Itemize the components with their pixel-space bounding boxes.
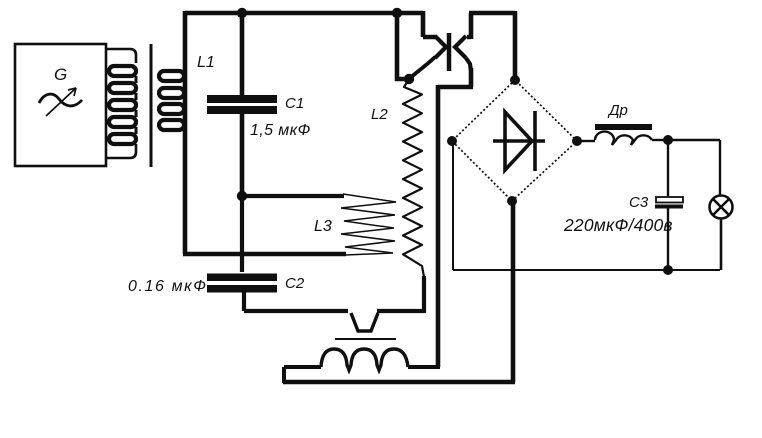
- capacitor C2: [207, 274, 277, 312]
- label L3: [314, 218, 332, 235]
- capacitor C3: [655, 140, 683, 270]
- generator G box: [15, 44, 106, 166]
- spark gap FV electrodes: [410, 33, 471, 78]
- node choke output: [663, 135, 673, 145]
- transformer T1 core: [150, 44, 153, 167]
- transformer T1 secondary winding (L1 side): [159, 71, 184, 130]
- svg-text:Др: Др: [607, 102, 628, 119]
- wire bottom rail up to T2 secondary: [284, 367, 321, 383]
- wire node to lamp top: [668, 140, 720, 196]
- svg-text:С3: С3: [629, 194, 649, 211]
- svg-text:C1: C1: [285, 95, 304, 112]
- coil L3: [341, 194, 396, 255]
- generator sine-arrow symbol: [39, 88, 82, 116]
- wire bridge bottom to bottom rail: [511, 201, 516, 382]
- node C3 bottom: [663, 265, 673, 275]
- label C3: [629, 194, 649, 211]
- coil L2 zigzag: [403, 79, 424, 277]
- bridge rectifier diamond: [452, 80, 577, 201]
- wire top rail to spark-gap left: [397, 11, 436, 37]
- node bridge right: [572, 136, 582, 146]
- wire bottom rail: [283, 380, 515, 385]
- transformer T2 core: [335, 338, 396, 340]
- label C1 value: [250, 122, 311, 139]
- transformer T1 primary winding: [106, 49, 136, 158]
- node bridge left: [447, 136, 457, 146]
- svg-text:0.16 мкФ: 0.16 мкФ: [128, 278, 208, 295]
- lamp HL1: [710, 196, 733, 271]
- svg-text:L1: L1: [197, 54, 215, 71]
- label C2: [285, 275, 305, 292]
- wire bottom thin rail: [453, 269, 720, 271]
- svg-text:G: G: [54, 65, 67, 84]
- choke Dr winding: [595, 132, 652, 145]
- wire lower-left horizontal: [183, 252, 346, 257]
- wire C2 bottom to T2 primary: [244, 309, 348, 313]
- wire top rail: [185, 11, 397, 16]
- bridge diode symbol: [493, 111, 545, 171]
- capacitor C1: [207, 13, 277, 196]
- node bridge bottom: [507, 196, 517, 206]
- label C1: [285, 95, 304, 112]
- label C2 value: [128, 278, 208, 295]
- label L1: [197, 54, 215, 71]
- label Dr: [607, 102, 628, 119]
- wire left rail: [183, 11, 188, 254]
- svg-text:L3: L3: [314, 218, 332, 235]
- wire T2 primary to L2 bottom: [377, 276, 424, 313]
- choke Dr core bar: [595, 124, 652, 130]
- wire spark-gap left loop: [397, 13, 407, 79]
- transformer T2 secondary winding: [321, 349, 408, 370]
- node junction top C1: [237, 8, 247, 18]
- generator G label: [54, 65, 67, 84]
- wire spark-gap right top to bridge: [467, 11, 515, 80]
- svg-text:C2: C2: [285, 275, 305, 292]
- node bridge top: [510, 75, 520, 85]
- wire C2 upper lead: [240, 196, 244, 272]
- svg-text:220мкФ/400в: 220мкФ/400в: [563, 215, 673, 235]
- svg-text:L2: L2: [371, 106, 388, 123]
- transformer T2 primary single-turn loop: [351, 313, 378, 331]
- wire spark-gap right bottom down: [438, 68, 473, 367]
- node junction top right: [392, 8, 402, 18]
- wire bridge left to bottom thin rail: [452, 141, 454, 270]
- wire bridge right to choke: [579, 140, 595, 142]
- svg-text:1,5 мкФ: 1,5 мкФ: [250, 122, 311, 139]
- wire L3 top feed: [242, 194, 344, 198]
- node junction mid left: [237, 191, 247, 201]
- node junction L2 top: [404, 74, 414, 84]
- label L2: [371, 106, 388, 123]
- wire choke to node: [652, 139, 668, 141]
- wire T2 secondary right to riser: [408, 365, 440, 369]
- label C3 value: [563, 215, 673, 235]
